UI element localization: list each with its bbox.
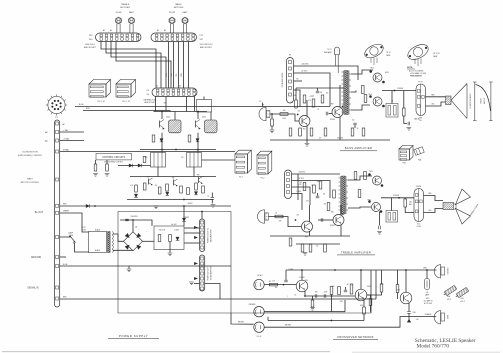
svg-text:50: 50 bbox=[207, 195, 209, 197]
resistor R23 bbox=[313, 185, 316, 193]
svg-text:REVERB: REVERB bbox=[249, 304, 256, 306]
wire treble strip pin2 to P4 bbox=[106, 42, 161, 89]
junction bus 2 bbox=[197, 111, 199, 113]
svg-text:P3: P3 bbox=[289, 54, 291, 56]
wire P4 drop 2 bbox=[165, 97, 167, 112]
connector strip P4/S4 (motor feed) bbox=[152, 88, 197, 97]
wire treble output rail bbox=[381, 197, 414, 199]
svg-text:TREBLE: TREBLE bbox=[121, 4, 130, 6]
wire jack to base bbox=[270, 114, 299, 121]
auxiliary box at P4 right end bbox=[197, 100, 212, 113]
arrow at treble outlet pin 5 bbox=[194, 277, 198, 280]
wire TR1 collector up bbox=[306, 100, 308, 117]
wire ground stub bbox=[60, 256, 66, 258]
resistor R29 bbox=[364, 172, 367, 180]
diode CR40 bbox=[134, 194, 137, 197]
junction on B+ wire bbox=[94, 205, 96, 207]
driver transformer T2 left winding bbox=[342, 71, 344, 115]
speaker cone (15 inch) bbox=[451, 84, 467, 119]
transistor TR6 (crossover) bbox=[355, 289, 367, 301]
resistor R25 bbox=[327, 203, 330, 211]
wire power box to SOS jack bbox=[231, 313, 254, 324]
capacitor C .033 bbox=[315, 294, 317, 297]
connector block P6/S6 (3D) bbox=[116, 80, 136, 98]
wire bass strip drop 2 bbox=[173, 42, 175, 89]
wire R41 lead bbox=[106, 160, 108, 164]
emitter dot TR4 bbox=[342, 213, 344, 215]
svg-text:330: 330 bbox=[317, 181, 320, 183]
capacitor C3 bass bbox=[316, 91, 319, 93]
arrow at bass outlet pin 2 bbox=[194, 226, 198, 229]
wire R79 leads bbox=[367, 295, 371, 299]
wire echo jack to Q1 bbox=[264, 284, 296, 286]
wire Q1 emitter bbox=[304, 291, 306, 297]
svg-text:YEL: YEL bbox=[419, 120, 422, 122]
junction control bbox=[183, 199, 185, 201]
treble horn driver voice coil bbox=[443, 203, 454, 210]
wire bridge top to filter bbox=[132, 220, 134, 232]
ground regulator bbox=[168, 253, 173, 256]
resistor R32t hang bbox=[301, 244, 304, 252]
wire treble pin4 bbox=[292, 194, 303, 211]
wire bass strip drop 1 bbox=[168, 42, 170, 89]
svg-text:TR16: TR16 bbox=[367, 199, 371, 201]
ground at treble outlet bbox=[189, 282, 194, 285]
driver transformer T3 right winding bbox=[346, 176, 348, 214]
wire Q2 out bbox=[367, 292, 382, 295]
resistor R40 below label bbox=[94, 164, 97, 171]
input jack J1 (bass) bbox=[259, 107, 270, 121]
resistor R70 bbox=[270, 283, 278, 286]
wire bus to triac module 1 bbox=[161, 112, 163, 120]
svg-text:-37 VDC: -37 VDC bbox=[298, 178, 305, 180]
junction box top at strip bbox=[201, 211, 203, 213]
emitter dot TR2 bbox=[342, 106, 344, 108]
power inlet strip P3 (bass amp) bbox=[287, 58, 294, 104]
treble slow motor M1 bbox=[116, 17, 122, 33]
svg-text:S,PL-8: S,PL-8 bbox=[460, 301, 464, 303]
svg-text:56K: 56K bbox=[290, 102, 293, 104]
wire C31 leads bbox=[345, 287, 347, 290]
wire bass strip drop 5 bbox=[188, 42, 190, 89]
junction top feed 2 bbox=[334, 269, 336, 271]
wire B+ into regulator bbox=[183, 206, 185, 226]
wire gnd drop bass bbox=[306, 140, 308, 143]
wire R79 down bbox=[370, 306, 372, 312]
resistor R31t hang bbox=[289, 238, 292, 246]
svg-text:ECHO: ECHO bbox=[258, 275, 264, 277]
bass fast motor M4 bbox=[182, 17, 188, 33]
svg-text:4.7K: 4.7K bbox=[145, 157, 148, 159]
svg-text:.33: .33 bbox=[391, 101, 393, 103]
svg-text:4.7K: 4.7K bbox=[308, 100, 311, 102]
svg-text:40409: 40409 bbox=[367, 286, 371, 288]
wire +36.5VDC bbox=[294, 66, 359, 80]
svg-text:TR13: TR13 bbox=[370, 68, 374, 70]
transistor TR8 (control) bbox=[174, 179, 178, 186]
svg-text:IN3492: IN3492 bbox=[185, 217, 190, 219]
wire control row top bbox=[130, 176, 216, 178]
wire 50uF drop bbox=[211, 193, 213, 198]
power transistor TR15 bbox=[368, 173, 383, 187]
wire top rail bass bbox=[296, 87, 344, 89]
relay coil box K2 bbox=[187, 153, 202, 168]
svg-text:4.7K: 4.7K bbox=[181, 157, 184, 159]
treble horn upper bell bbox=[456, 189, 471, 205]
resistor control row R50 bbox=[135, 185, 138, 192]
wire control row mid bbox=[127, 199, 213, 201]
wire R74 to bottom bbox=[363, 314, 365, 321]
svg-text:+36.5VDC: +36.5VDC bbox=[298, 172, 306, 174]
junction mid xover bbox=[304, 295, 306, 297]
resistor R3 bbox=[295, 100, 298, 108]
diode CR6 above regulator bbox=[182, 218, 185, 221]
bias assembly transistor TR17 bbox=[335, 47, 340, 73]
output plug P7/S7 (bass) bbox=[416, 84, 426, 116]
svg-text:IN4003: IN4003 bbox=[188, 203, 193, 205]
wire regulator out 2 bbox=[184, 232, 200, 234]
arrow at bass outlet pin 4 bbox=[194, 236, 198, 239]
svg-text:GROUND: GROUND bbox=[31, 257, 42, 259]
svg-text:P7 S7: P7 S7 bbox=[418, 81, 422, 83]
svg-text:MOTORS: MOTORS bbox=[174, 7, 184, 9]
svg-text:FROM: FROM bbox=[416, 186, 422, 188]
wire T2 sec mid bbox=[351, 91, 356, 93]
svg-text:TREBLE AMPLIFIER: TREBLE AMPLIFIER bbox=[341, 250, 371, 254]
junction lamp bbox=[426, 269, 428, 271]
svg-text:AND SOCKET: AND SOCKET bbox=[145, 101, 156, 104]
capacitor 50uF bbox=[211, 198, 214, 200]
resistor R73 bbox=[350, 284, 353, 294]
svg-text:BRN: BRN bbox=[423, 268, 426, 270]
TO-3 case TR13/14 leads bbox=[415, 59, 421, 67]
speaker voice coil (15 inch) bbox=[446, 96, 452, 105]
wood baffle rails bbox=[473, 82, 493, 121]
wire R76 down bbox=[397, 293, 399, 300]
wire -7VAC stub bbox=[60, 131, 84, 133]
wire crossover top feed bbox=[286, 269, 376, 271]
wire R16 to C5 bbox=[404, 116, 407, 124]
svg-text:S.O.S.: S.O.S. bbox=[257, 336, 263, 338]
transistor TR2 (bass) bbox=[332, 107, 343, 118]
svg-text:750Ω: 750Ω bbox=[412, 312, 415, 314]
diode CR5 in regulator bbox=[176, 237, 179, 240]
transistor TR1 (bass) bbox=[299, 116, 310, 127]
svg-text:-37 VDC: -37 VDC bbox=[301, 71, 308, 73]
svg-text:.02: .02 bbox=[351, 284, 353, 286]
wire AC hot to fuse/switch bbox=[60, 236, 70, 237]
svg-text:TIP: TIP bbox=[262, 104, 264, 106]
svg-text:120: 120 bbox=[155, 185, 158, 187]
svg-text:AND SOCKET: AND SOCKET bbox=[200, 46, 213, 49]
ground at C5 bbox=[407, 128, 412, 131]
wire T3 sec top bbox=[348, 176, 372, 180]
svg-text:SLOW: SLOW bbox=[116, 12, 122, 14]
svg-text:S,PL-9: S,PL-9 bbox=[447, 299, 451, 301]
svg-text:P8, 9, 10: P8, 9, 10 bbox=[97, 101, 104, 103]
wire TR10 emitter down bbox=[408, 303, 410, 312]
svg-text:P6, 9, 12: P6, 9, 12 bbox=[122, 101, 129, 103]
wire relay K2 to P5-1 bbox=[202, 159, 236, 161]
wire TR4 collector bbox=[340, 205, 342, 216]
ground treble bottom bbox=[303, 253, 308, 256]
svg-text:(UNPLUGGED) CONTROL: (UNPLUGGED) CONTROL bbox=[18, 155, 43, 157]
wire bus to triac module 2 bbox=[197, 112, 199, 120]
connector block P5-1 (3D) bbox=[235, 150, 251, 173]
wire TR4 emitter bbox=[340, 225, 342, 237]
wire regulator out 3 bbox=[184, 242, 200, 244]
bridge rectifier CR1-CR4 bbox=[124, 232, 143, 251]
svg-text:+: + bbox=[147, 231, 148, 233]
scan artifact line bottom bbox=[2, 351, 330, 353]
svg-text:MOTORS: MOTORS bbox=[120, 7, 130, 9]
wire C22 leads bbox=[317, 193, 319, 196]
triac module TRIAC2 (bass motor control) bbox=[196, 120, 218, 133]
pilot lamp (#44) bbox=[425, 279, 430, 290]
connector strip P10/S10 (treble motors) bbox=[96, 33, 142, 42]
power outlet strip (bass amp) bbox=[200, 219, 205, 252]
svg-text:AND SOCKET: AND SOCKET bbox=[84, 46, 97, 49]
wire fb to Q2 bbox=[344, 300, 346, 312]
svg-text:FROM PWR SUPPLY: FROM PWR SUPPLY bbox=[282, 73, 284, 88]
svg-text:270: 270 bbox=[316, 246, 319, 248]
wire +17VAC stub bbox=[60, 140, 84, 142]
resistor R31 under triac2 bbox=[188, 135, 191, 142]
svg-text:TR1: TR1 bbox=[303, 129, 306, 131]
svg-text:4C4097: 4C4097 bbox=[299, 277, 304, 279]
resistor R34t hang bbox=[324, 244, 327, 252]
junction on B+ wire at regulator bbox=[183, 205, 185, 207]
wire BLUE long bbox=[60, 265, 231, 267]
capacitor C .0047 bbox=[324, 294, 326, 297]
scan artifact line bottom right bbox=[352, 351, 500, 353]
svg-text:+36.5VDC: +36.5VDC bbox=[301, 64, 310, 66]
jack speaker output (bottom right) bbox=[434, 311, 444, 325]
diode CR33 bbox=[138, 164, 141, 167]
round connector P1 (motor plug face) bbox=[46, 94, 67, 115]
wire T2 sec top bbox=[351, 70, 373, 74]
svg-text:1K: 1K bbox=[294, 294, 296, 296]
ground at 50uF bbox=[211, 205, 216, 208]
svg-text:YEL: YEL bbox=[176, 73, 178, 76]
wire TR1 emitter down bbox=[306, 126, 308, 141]
wire bridge right to regulator bbox=[142, 240, 154, 242]
resistor R10 hang bbox=[324, 128, 327, 136]
resistor R21 series bbox=[275, 215, 283, 218]
junction bus 1 bbox=[161, 111, 163, 113]
svg-text:5.6K: 5.6K bbox=[381, 283, 384, 285]
svg-text:2.2Ω/5W: 2.2Ω/5W bbox=[397, 88, 404, 90]
svg-text:.033: .033 bbox=[315, 292, 318, 294]
wire treble bottom rail 2 bbox=[296, 243, 340, 245]
wire signal rail up bbox=[375, 270, 377, 299]
wire P4 drop 1 bbox=[155, 97, 157, 112]
wire treble -37V bbox=[292, 181, 331, 199]
svg-text:AC: AC bbox=[45, 140, 48, 143]
svg-text:40502: 40502 bbox=[166, 117, 170, 119]
junction top feed 3 bbox=[360, 269, 362, 271]
wire Q2 collector up bbox=[360, 270, 362, 289]
wire regulator out 1 bbox=[184, 227, 200, 229]
wire fb rail bbox=[264, 311, 345, 313]
diode on B+ wire bbox=[86, 204, 89, 207]
wire treble +36V bbox=[292, 173, 341, 175]
emitter resistor block (bass) bbox=[386, 104, 398, 118]
resistor R41 below label bbox=[106, 164, 109, 171]
resistor R78 xover bbox=[311, 300, 314, 307]
svg-text:BLK: BLK bbox=[429, 210, 432, 212]
svg-text:CROSSOVER NETWORK: CROSSOVER NETWORK bbox=[337, 335, 374, 339]
wire TR2 emitter bbox=[339, 117, 341, 141]
control circuits label box bbox=[96, 154, 132, 160]
wire plug to speaker - bbox=[426, 102, 446, 106]
resistor R24 bbox=[319, 181, 322, 189]
svg-text:REVERB: REVERB bbox=[448, 268, 450, 275]
resistor control row R51 bbox=[143, 183, 146, 190]
transistor TR5 (crossover) bbox=[296, 280, 308, 292]
ground control row bbox=[154, 206, 159, 209]
wire P4 drop 4 bbox=[194, 97, 196, 112]
junction output rail bbox=[394, 90, 396, 92]
resistor R16 bbox=[403, 108, 406, 116]
svg-text:47K: 47K bbox=[298, 111, 301, 113]
svg-text:FAST: FAST bbox=[182, 11, 188, 14]
resistor R30 under triac1 bbox=[152, 135, 155, 142]
ground treble C25 bbox=[377, 232, 382, 235]
svg-text:POWER OUTLET TO: POWER OUTLET TO bbox=[208, 227, 210, 243]
wire bottom xover rail bbox=[268, 320, 364, 322]
jack REVERB output bbox=[434, 265, 444, 279]
wire R labels rail bbox=[295, 88, 297, 100]
power supply enclosure box bbox=[118, 212, 371, 314]
jack REVERB in (crossover) bbox=[254, 307, 264, 317]
wire emitter block to rail bbox=[391, 91, 393, 104]
power inlet strip P3 (treble amp) bbox=[285, 170, 292, 199]
capacitor 100pF bbox=[284, 280, 287, 282]
junction cross 2 bbox=[175, 149, 177, 151]
capacitor C22 treble bbox=[316, 196, 319, 198]
jack ECHO (crossover) bbox=[254, 279, 264, 289]
resistor control row R56 bbox=[195, 183, 198, 190]
svg-text:15 INCH SPEAKER: 15 INCH SPEAKER bbox=[469, 93, 472, 109]
svg-text:GREEN: GREEN bbox=[63, 211, 70, 213]
wood baffle curve bbox=[476, 85, 491, 112]
wire jack2 to base bbox=[268, 217, 301, 227]
svg-text:TR14: TR14 bbox=[368, 94, 372, 96]
wire R76 leads bbox=[397, 270, 399, 285]
wire filter cap rail bbox=[120, 220, 152, 226]
resistor R79 xover bbox=[369, 299, 372, 306]
wire BRN to reverb jack bbox=[376, 269, 437, 271]
wire R40 lead bbox=[95, 160, 97, 164]
capacitor C4 bass bbox=[353, 123, 356, 125]
svg-text:TR7: TR7 bbox=[147, 177, 150, 179]
wire TR3 emitter bbox=[309, 231, 311, 236]
resistor R72 bbox=[338, 287, 341, 295]
wire R16 leads bbox=[403, 91, 405, 109]
driver transformer T2 right winding bbox=[349, 71, 351, 115]
wire switch to transformer primary bottom bbox=[75, 243, 90, 252]
svg-text:FAST: FAST bbox=[27, 178, 33, 181]
transistor TR3 (treble) bbox=[302, 221, 313, 232]
svg-text:P5-2: P5-2 bbox=[261, 177, 265, 179]
svg-text:27Ω 1/2W: 27Ω 1/2W bbox=[337, 138, 344, 140]
connector block P8/S8 (3D) bbox=[89, 80, 111, 98]
junction bridge top bbox=[132, 219, 134, 221]
svg-text:TR 15: TR 15 bbox=[386, 52, 390, 54]
wire to diode row bbox=[118, 165, 151, 167]
svg-text:BASS: BASS bbox=[176, 3, 182, 6]
svg-text:P2: P2 bbox=[260, 100, 262, 102]
wire bus to triac2 box bbox=[210, 112, 212, 121]
wire BLUE from P1 to bass amp bbox=[75, 106, 330, 108]
diode CR30 bbox=[160, 139, 163, 142]
junction cross 3 bbox=[197, 149, 199, 151]
resistor R7 hang bbox=[289, 128, 292, 136]
resistor control row R52 bbox=[158, 187, 161, 194]
junction cross 1 bbox=[161, 149, 163, 151]
resistor R76 bbox=[396, 285, 399, 293]
svg-text:.68: .68 bbox=[347, 284, 349, 286]
wire gnd to treble outlet bbox=[194, 283, 200, 285]
svg-text:2N1302: 2N1302 bbox=[330, 225, 335, 227]
svg-text:TR 13,14: TR 13,14 bbox=[433, 53, 440, 55]
wire R78 up bbox=[312, 296, 314, 300]
resistor R27 bbox=[354, 172, 357, 180]
svg-text:1K: 1K bbox=[275, 212, 277, 214]
emitter dot TR1 bbox=[297, 114, 299, 116]
svg-text:47K: 47K bbox=[269, 281, 272, 283]
wire T3 sec bot bbox=[348, 207, 371, 208]
wire C30 to gnd bbox=[408, 314, 410, 323]
svg-text:4.7K: 4.7K bbox=[130, 185, 133, 187]
svg-text:270K: 270K bbox=[305, 280, 308, 282]
ground below R41 bbox=[105, 174, 110, 177]
svg-text:TR8: TR8 bbox=[172, 178, 175, 180]
wire triac2 to relay bbox=[197, 133, 199, 153]
svg-text:SLOW MOTOR: SLOW MOTOR bbox=[22, 151, 38, 153]
driver transformer T3 (treble) core bbox=[342, 176, 346, 214]
wire C2 to TR2 bbox=[329, 113, 333, 115]
svg-text:P5-1: P5-1 bbox=[239, 176, 243, 178]
underline CROSSOVER NETWORK bbox=[333, 338, 378, 340]
wire GREEN to transformer bbox=[60, 213, 89, 232]
resistor R9 hang bbox=[310, 128, 313, 136]
svg-text:TR9: TR9 bbox=[197, 175, 200, 177]
wire bass strip drop 4 bbox=[183, 42, 185, 89]
wire 100pF branch bbox=[285, 270, 287, 280]
svg-text:BROWN: BROWN bbox=[285, 325, 291, 327]
wire SOS jack rail bbox=[264, 317, 436, 328]
svg-text:1K: 1K bbox=[317, 109, 319, 111]
chassis ground arrow TR10 bbox=[407, 319, 411, 322]
relay coil box K1 bbox=[151, 153, 166, 168]
svg-text:6.8K: 6.8K bbox=[293, 95, 296, 97]
wire P4 drop 3 bbox=[186, 97, 188, 112]
ground below R40 bbox=[93, 174, 98, 177]
wire treble NC bbox=[292, 187, 311, 205]
svg-text:B+ OUT: B+ OUT bbox=[35, 212, 44, 214]
wire secondary top to bridge bbox=[113, 234, 124, 241]
svg-text:470: 470 bbox=[324, 204, 327, 206]
svg-text:BASS AMPLIFIER: BASS AMPLIFIER bbox=[345, 146, 373, 150]
wire output rail bbox=[382, 90, 416, 92]
wire regulator ground stub bbox=[169, 242, 171, 253]
wire control cross bbox=[140, 149, 216, 151]
svg-text:WOOD: WOOD bbox=[481, 98, 483, 104]
svg-text:GRN: GRN bbox=[419, 118, 422, 120]
capacitor C21 bbox=[321, 218, 323, 221]
